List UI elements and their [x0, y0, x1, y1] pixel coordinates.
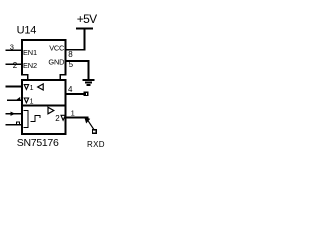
- bus pin wire row2 (receiver in B): [8, 99, 22, 101]
- IC U14 driver/receiver section body: [22, 80, 66, 134]
- svg-text:8: 8: [68, 50, 73, 59]
- bus pin wire row4 (driver out B): [7, 124, 23, 126]
- pin 3 wire (EN1): [7, 49, 23, 51]
- svg-text:+5V: +5V: [77, 12, 97, 26]
- common control bracket: [24, 111, 28, 128]
- net stub anchor square at pin 4: [84, 92, 87, 95]
- qualifier triangle after 2: [61, 115, 65, 120]
- receiver triangle symbol: [38, 84, 44, 90]
- svg-text:2: 2: [55, 114, 60, 123]
- ground symbol: [84, 80, 94, 85]
- RXD label anchor square: [93, 130, 97, 133]
- svg-text:1: 1: [30, 85, 34, 92]
- driver triangle symbol: [48, 107, 54, 114]
- svg-text:5: 5: [69, 60, 74, 69]
- svg-text:EN2: EN2: [23, 61, 37, 70]
- pin 5 wire (GND): [66, 61, 89, 80]
- bus pin wire row1 (receiver in A): [7, 86, 23, 88]
- direction arrow row3: [11, 112, 15, 115]
- RXD label leader line: [89, 122, 95, 130]
- +5V power rail bar: [77, 28, 92, 30]
- section joining jog right: [59, 75, 61, 80]
- pin 2 wire (EN2): [7, 63, 23, 65]
- qualifier triangle row1: [24, 85, 28, 90]
- pin 4 wire (D input stub): [66, 93, 86, 95]
- RXD leader arrowhead: [85, 117, 90, 123]
- svg-text:3: 3: [10, 42, 14, 51]
- pin 8 wire (VCC) to +5V: [66, 29, 85, 50]
- svg-text:GND: GND: [48, 58, 64, 67]
- direction mark row4: [16, 122, 19, 124]
- qualifier triangle row2: [24, 98, 28, 103]
- IC U14 enable/power section body: [22, 40, 66, 75]
- svg-text:4: 4: [68, 85, 73, 94]
- svg-text:U14: U14: [17, 25, 37, 37]
- svg-text:EN1: EN1: [23, 48, 37, 57]
- pin 1 wire (R output): [66, 117, 88, 119]
- svg-text:SN75176: SN75176: [17, 137, 59, 149]
- section joining jog left: [27, 75, 29, 80]
- pulse/step symbol: [31, 116, 40, 122]
- svg-text:1: 1: [30, 98, 34, 105]
- bus pin wire row3 (driver out A): [7, 113, 23, 115]
- svg-text:1: 1: [71, 109, 75, 118]
- svg-text:VCC: VCC: [49, 44, 65, 53]
- direction mark row2: [17, 98, 20, 100]
- internal divider between receiver and driver sections: [22, 105, 66, 107]
- svg-text:RXD: RXD: [87, 140, 105, 149]
- svg-text:2: 2: [13, 61, 18, 70]
